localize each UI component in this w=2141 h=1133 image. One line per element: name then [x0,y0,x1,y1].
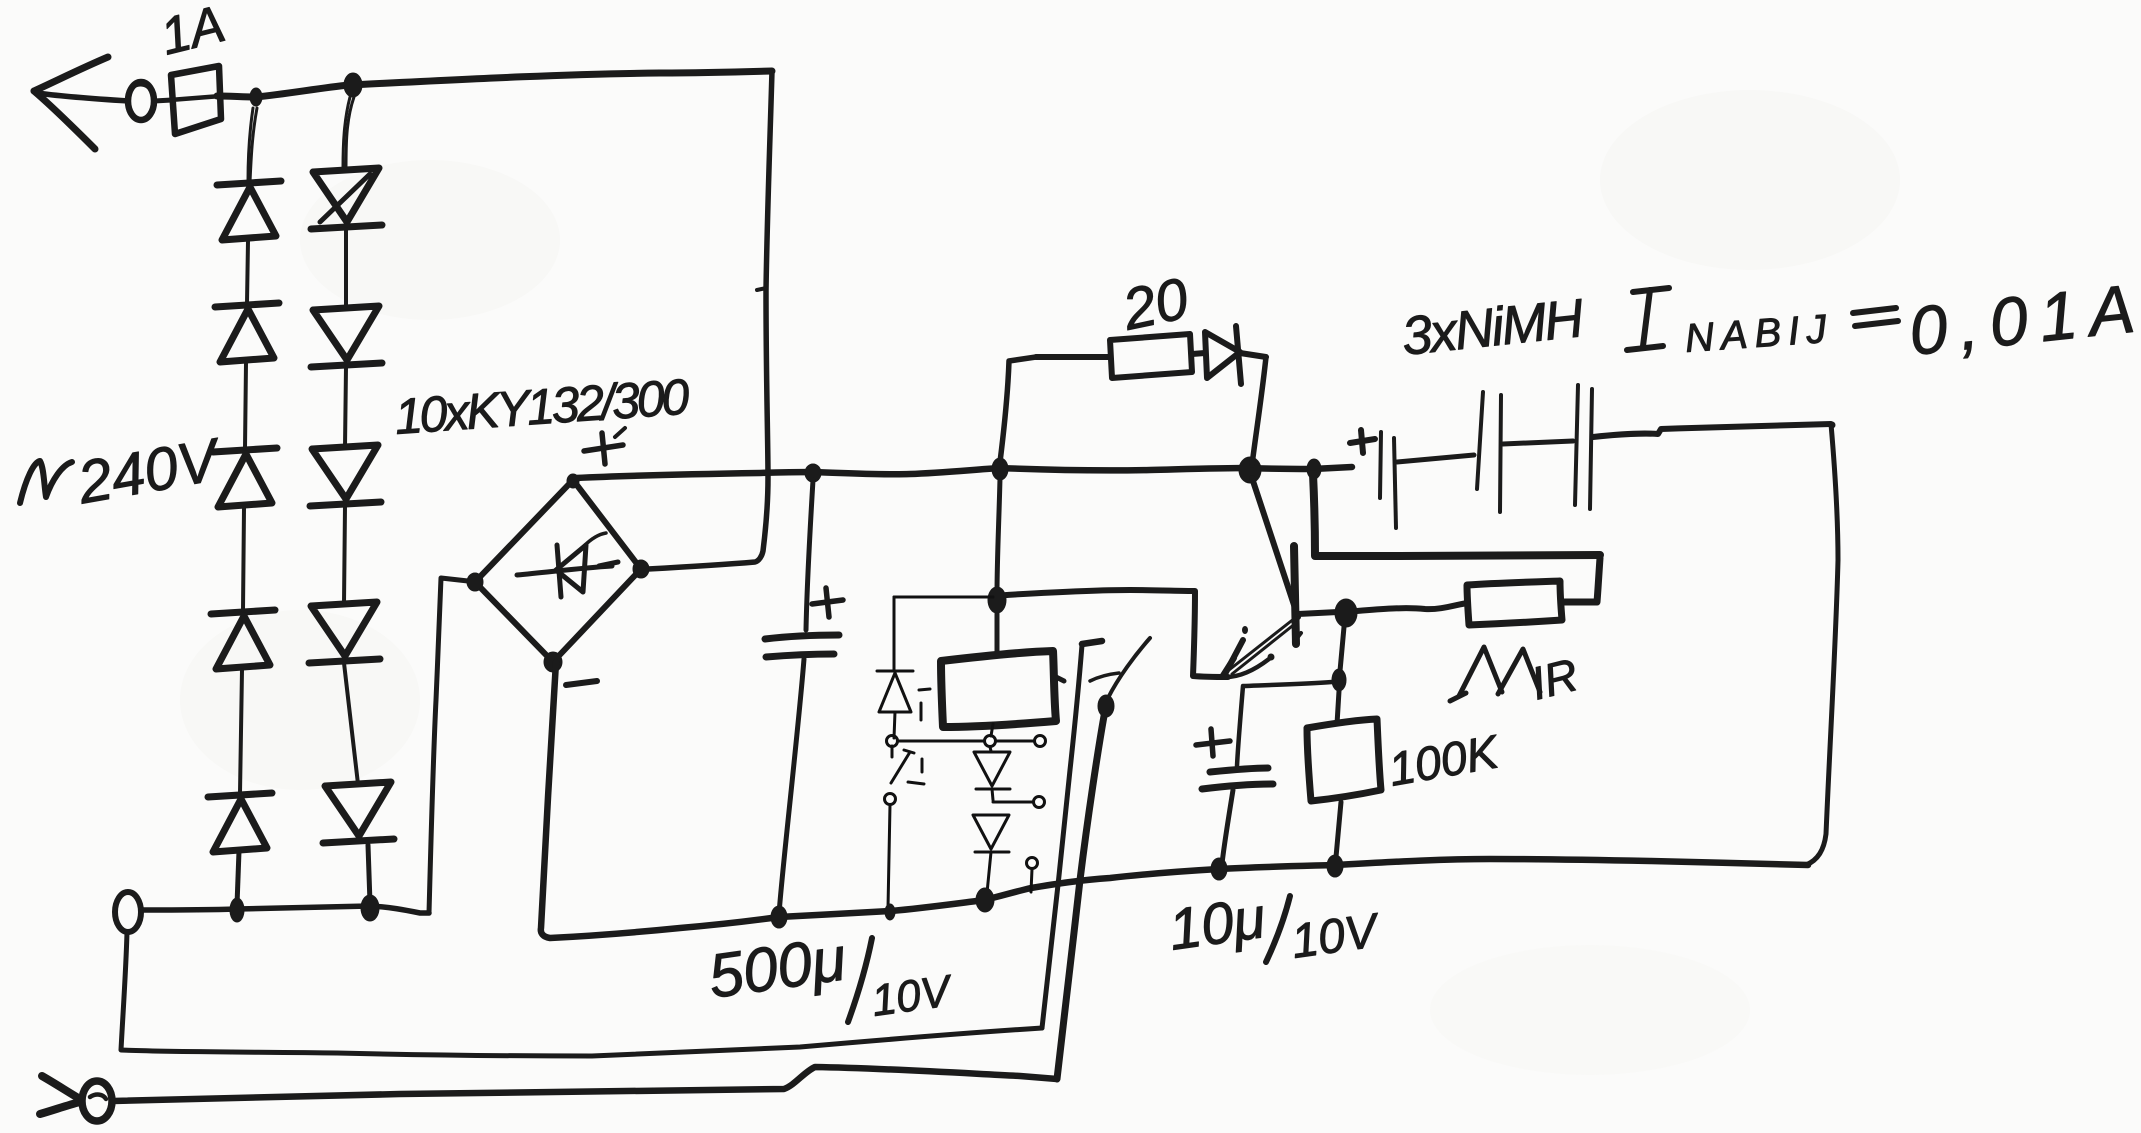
capacitor C2 plates [1202,768,1273,789]
wire: chain-1 segment [240,670,242,793]
label: 10xKY132/300 [393,369,691,445]
node: relay-top / base-drive junction [988,587,1006,613]
battery BT1 cell 3 [1575,385,1592,509]
node: C2 to minus bus [1211,858,1227,880]
transistor Q1 emitter with arrow [1229,618,1296,674]
capacitor C1 negative lead [779,659,804,914]
label: C2 polarity + [1196,729,1230,756]
label: R2 value marks [1450,647,1540,701]
resistor R1 20 [1036,334,1205,378]
diode D9 (aux series 2, pointing down) [973,815,1009,893]
label: fuse value 1A [155,0,231,67]
node: chain-1 bottom junction [230,898,244,922]
wire: tee to R3 top [1337,691,1339,724]
wire: aux top link (thin) [894,597,993,670]
wire: right-side return loop [1806,422,1838,866]
terminal: aux circle right [1035,736,1046,747]
wire: chain-1 segment [245,363,246,448]
wire: Q1 base to junction [1298,612,1338,614]
terminal: output arrow bottom-left [40,1076,80,1114]
wire: R1 branch left riser [1000,357,1036,462]
transistor Q1 emitter flourish [1223,626,1275,677]
wire: chains bottom bus to bridge-left drop [142,906,429,913]
label: ~240V [20,461,72,503]
wire: minus bus from bridge to battery return [541,662,1808,938]
wire: aux mid tap (thin) [993,801,1033,804]
wire: terminal to fuse [154,100,172,101]
label: NABIJ subscript [1684,307,1835,361]
diode: bridge inner symbol [517,533,618,597]
wire: relay coil to aux bus (thin) [991,724,993,736]
node: S2 pivot blob [1098,695,1114,717]
node: + rail / diode-return + collector junction [1239,457,1261,483]
wire: chain-1 segment [243,508,244,610]
terminal: AC input line arrow [34,57,128,149]
label: equals sign [1853,308,1898,326]
wire: chain-2 segment [344,229,348,308]
diode chain-1 D5 (KY132) [208,793,272,852]
diode chain-1 D1 (KY132) [217,181,281,240]
wire: D6 to + rail drop [1252,357,1266,465]
capacitor C1 500μ/10V positive lead [806,480,813,630]
transistor Q1 emitter flourish k [1222,640,1243,677]
capacitor C2 negative lead [1222,790,1233,864]
label: battery polarity + [1350,430,1375,453]
node: S1 to minus bus [885,904,895,920]
wire: base junction down to R3 [1340,627,1344,671]
wire: chain-2 segment [345,367,346,447]
node: + rail / base-loop junction [1307,459,1321,479]
wire: aux contact bus (thin) [898,740,1034,743]
wire: tee to C2 top [1237,682,1332,766]
wire: cell2-cell3 [1503,441,1573,444]
node: bridge right (AC) corner [633,560,649,578]
label: I_nabij = 0,01A [1627,288,1669,350]
diode chain-2 D1 (KY132) [311,168,382,229]
terminal: aux stub circle on bus [1027,858,1038,893]
diode D8 (aux series, pointing down) [974,747,1010,800]
resistor R2 (1R base loop) [1467,581,1562,625]
wire: + rail to relay coil riser [997,478,1000,656]
wire: fuse to top-right corner [217,71,772,97]
label: 240V text [72,425,228,516]
switch S2 small dash mark [1090,673,1119,681]
node: bridge top (+) corner [567,474,579,488]
wire: AC right-side drop to bridge [648,71,772,569]
node: chain-2 bottom junction [361,895,379,921]
diode chain-1 D4 (KY132) [211,610,275,669]
wire: chain-2 bottom lead [368,845,370,903]
wire: N terminal to lower bus [121,932,1042,1056]
wire: thick top link back to + rail [1313,474,1600,556]
wire: chain-2 segment [344,663,358,784]
wire: chain-1 top lead [248,108,257,182]
label: R1 value 20 [1116,266,1194,343]
wire: R3 bottom lead [1336,802,1341,857]
node: bridge left (AC) corner [467,573,483,591]
label: C2 value 10μ/10V [1165,885,1384,969]
diode chain-1 D2 (KY132) [215,303,279,362]
diode chain-2 D3 (KY132) [310,445,381,506]
relay K1 coil box [941,651,1064,727]
node: base junction blob [1335,599,1357,627]
label: battery 3xNiMH [1399,288,1587,367]
diode chain-2 D5 (KY132) [323,782,394,843]
label: D7 polarity marks [919,689,930,720]
terminal: AC input L circle [128,82,154,120]
terminal: output circle bottom-left [82,1081,112,1121]
node: R3 to minus bus [1327,855,1343,877]
node: R3/C2 tee blob [1332,669,1346,691]
wire: chain-1 segment [247,241,248,303]
label: C1 value 500μ/10V [704,924,956,1025]
battery BT1 cell 2 [1477,392,1501,512]
wire: thick drive wire node to transistor emitter [1006,590,1228,677]
bridge rectifier B1 diamond [475,480,641,662]
node: + rail / R1-branch + relay junction [992,458,1008,480]
resistor R3 100K [1307,719,1381,801]
fuse F1 [170,66,221,134]
label: C1 polarity + [812,588,843,617]
wire: R2 right lead and riser [1562,558,1600,602]
wire: base junction to R2 [1357,603,1467,611]
wire: chain-2 top lead [343,97,354,169]
switch S2 contact line A [1042,641,1102,1028]
diode chain-1 D3 (KY132) [213,448,277,507]
battery BT1 cell 1 [1380,432,1396,528]
wire: bridge left corner drop [429,578,468,913]
diode chain-2 D2 (KY132) [311,306,382,367]
svg-text:20: 20 [1116,266,1194,343]
node: bridge bottom (-) corner [544,652,562,672]
transistor Q1 collector [1252,478,1301,642]
wire: bottom output line [113,1067,1057,1101]
wire: battery out to right corner [1593,424,1831,437]
wire: + rail from bridge to battery [576,467,1352,478]
label: R3 value 100K [1385,724,1505,796]
node: C1 negative junction [771,906,787,928]
diode D6 series with R1 [1205,326,1266,384]
switch S2 blade line B [1057,716,1104,1079]
diode D7 (aux, anode down) [877,671,913,738]
terminal: AC input N circle [115,892,141,932]
label: bridge + [584,428,625,464]
terminal: aux circle mid [985,736,996,747]
label: 0,01A value [1906,269,2141,369]
label: R2 value IR text [1526,648,1583,710]
label: bridge - [566,681,597,685]
node: top wire / diode chain 1 junction [250,88,262,106]
node: + rail / C1 junction [805,464,821,482]
wire: cell1-cell2 [1397,455,1474,462]
node: top wire / diode chain 2 junction [344,73,362,97]
svg-text:10μ: 10μ [1165,885,1269,963]
terminal: aux circle left [887,736,898,747]
transistor Q1 base bar [1294,546,1296,644]
diode chain-2 D4 (KY132) [309,602,380,663]
capacitor C1 plates [765,635,839,657]
node: aux chain to minus bus blob [976,888,994,912]
wire: chain-2 segment [344,506,345,604]
wire: chain-1 bottom lead [237,851,239,905]
terminal: aux mid tap circle [1034,797,1045,808]
switch S1 (aux contact) [885,746,925,908]
switch S2 blade arm [1108,638,1150,698]
